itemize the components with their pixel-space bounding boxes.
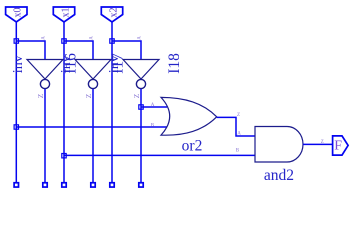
input port x0 bbox=[6, 7, 27, 22]
svg-text:x0: x0 bbox=[13, 8, 24, 18]
terminal square x0 net bbox=[14, 183, 18, 187]
terminal square inv1 out net bbox=[43, 183, 47, 187]
svg-text:Z: Z bbox=[321, 140, 324, 145]
svg-text:inv: inv bbox=[107, 55, 122, 73]
terminal square inv2 out net bbox=[91, 183, 95, 187]
svg-text:I18: I18 bbox=[166, 53, 183, 74]
wire inv1 output down to terminal bbox=[44, 89, 46, 184]
terminal square x1 net bbox=[62, 183, 66, 187]
terminal square x2 net bbox=[110, 183, 114, 187]
wire port x2 down bbox=[111, 22, 113, 184]
wire x2 junction to inv3 input corner bbox=[112, 41, 141, 60]
svg-text:B: B bbox=[236, 149, 240, 154]
svg-text:A: A bbox=[89, 36, 94, 40]
terminal square inv3 out net bbox=[139, 183, 143, 187]
svg-text:Z: Z bbox=[132, 93, 141, 98]
svg-text:A: A bbox=[41, 36, 46, 40]
junction square on x0 (node to or2 B) bbox=[14, 125, 18, 129]
junction square x1 bbox=[62, 39, 66, 43]
inverter U2 I17 bbox=[59, 36, 127, 98]
junction square x0 bbox=[14, 39, 18, 43]
wire port x0 to junction bbox=[15, 22, 17, 41]
inverter U1 I16 bbox=[11, 36, 80, 98]
svg-text:Z: Z bbox=[84, 93, 93, 98]
output port F bbox=[333, 136, 349, 155]
junction square x2 bbox=[110, 39, 114, 43]
or-gate U4 or2 bbox=[151, 97, 217, 154]
wire x0 junction to inv1 input corner bbox=[16, 41, 45, 60]
input port x2 bbox=[101, 7, 122, 22]
wire x0 vertical down to terminal bbox=[15, 41, 17, 184]
wire port x1 down bbox=[63, 22, 65, 184]
wire and2 output to port F bbox=[303, 143, 333, 145]
svg-text:x2: x2 bbox=[108, 8, 119, 18]
wire x1 junction to inv2 input corner bbox=[64, 41, 93, 60]
junction square on x1 (node to and2 B) bbox=[62, 154, 66, 158]
wire inv2 output down to terminal bbox=[92, 89, 94, 184]
svg-text:or2: or2 bbox=[182, 138, 203, 155]
junction square on inv3 output (node to or2 A) bbox=[139, 105, 143, 109]
svg-text:A: A bbox=[137, 36, 142, 40]
svg-text:and2: and2 bbox=[264, 167, 294, 184]
wire x0 node to or2 input B bbox=[16, 126, 167, 128]
wire inv3 output down to terminal bbox=[140, 89, 142, 184]
input port x1 bbox=[53, 7, 74, 22]
wire inv3 node to or2 input A bbox=[141, 106, 167, 108]
svg-text:Z: Z bbox=[36, 93, 45, 98]
svg-text:A: A bbox=[151, 103, 155, 108]
svg-text:x1: x1 bbox=[60, 8, 71, 18]
and-gate U5 and2 bbox=[255, 127, 303, 185]
svg-text:A: A bbox=[237, 132, 241, 137]
svg-text:F: F bbox=[334, 139, 342, 154]
svg-text:Z: Z bbox=[237, 113, 240, 118]
inverter U3 I18 bbox=[107, 36, 183, 98]
wire or2 output to and2 input A bbox=[217, 117, 255, 136]
wire x1 node to and2 input B bbox=[64, 154, 255, 156]
svg-text:inv: inv bbox=[11, 55, 26, 73]
svg-text:inv: inv bbox=[59, 55, 74, 73]
